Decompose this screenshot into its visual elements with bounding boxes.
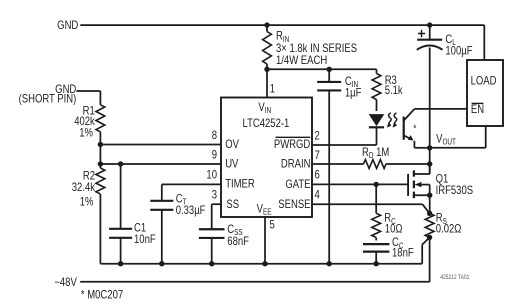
svg-text:0.33µF: 0.33µF <box>176 204 206 217</box>
svg-text:GATE: GATE <box>285 178 310 191</box>
svg-text:1%: 1% <box>80 196 94 209</box>
svg-text:425212 TA01: 425212 TA01 <box>440 275 469 282</box>
svg-text:32.4k: 32.4k <box>72 181 96 194</box>
svg-text:VOUT: VOUT <box>436 132 456 146</box>
svg-text:10Ω: 10Ω <box>385 223 403 236</box>
svg-text:VIN: VIN <box>258 101 271 115</box>
svg-text:* M0C207: * M0C207 <box>81 289 123 302</box>
svg-text:10nF: 10nF <box>134 233 156 246</box>
svg-text:*: * <box>413 123 417 134</box>
svg-text:3× 1.8k IN SERIES: 3× 1.8k IN SERIES <box>276 42 357 55</box>
svg-text:100µF: 100µF <box>445 45 473 58</box>
svg-text:GND: GND <box>57 19 78 32</box>
svg-text:10: 10 <box>206 169 217 182</box>
svg-text:4: 4 <box>315 189 320 202</box>
svg-text:SENSE: SENSE <box>278 198 310 211</box>
svg-text:RD 1M: RD 1M <box>362 146 389 160</box>
svg-text:5: 5 <box>270 218 275 231</box>
svg-text:1: 1 <box>270 82 275 95</box>
svg-text:SS: SS <box>226 198 239 211</box>
svg-text:−48V: −48V <box>54 276 77 289</box>
svg-text:PWRGD: PWRGD <box>274 138 311 151</box>
svg-text:0.02Ω: 0.02Ω <box>436 223 462 236</box>
svg-text:1/4W EACH: 1/4W EACH <box>276 54 327 67</box>
svg-text:1µF: 1µF <box>345 87 362 100</box>
svg-text:5.1k: 5.1k <box>385 84 404 97</box>
svg-text:DRAIN: DRAIN <box>281 158 311 171</box>
svg-text:9: 9 <box>212 149 217 162</box>
svg-text:IRF530S: IRF530S <box>436 184 473 197</box>
svg-text:6: 6 <box>315 169 320 182</box>
svg-text:68nF: 68nF <box>227 235 249 248</box>
svg-text:OV: OV <box>225 138 240 151</box>
svg-text:UV: UV <box>225 158 239 171</box>
svg-text:LOAD: LOAD <box>471 74 497 87</box>
svg-text:1%: 1% <box>79 127 93 140</box>
svg-text:VEE: VEE <box>257 203 272 217</box>
svg-text:8: 8 <box>212 129 217 142</box>
svg-text:EN: EN <box>471 103 484 116</box>
svg-text:3: 3 <box>212 189 217 202</box>
svg-text:2: 2 <box>315 130 320 143</box>
svg-text:TIMER: TIMER <box>225 178 255 191</box>
svg-text:7: 7 <box>315 149 320 162</box>
svg-text:(SHORT PIN): (SHORT PIN) <box>19 92 77 105</box>
svg-text:LTC4252-1: LTC4252-1 <box>243 117 290 130</box>
svg-text:18nF: 18nF <box>392 247 414 260</box>
